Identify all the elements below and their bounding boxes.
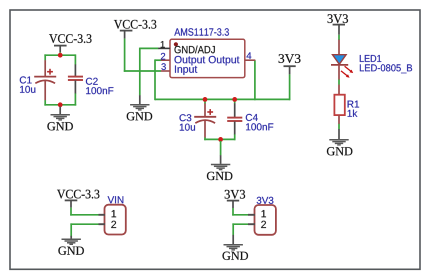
wire bottom rail C1-C2	[44, 104, 76, 106]
wire VCC1 stub to top rail	[59, 52, 61, 55]
wire VCC2 down	[124, 39, 126, 72]
wire bottom rail C3-C4	[204, 138, 235, 140]
power flag 3V3 (top-right)	[328, 14, 348, 35]
label R1 1k	[348, 101, 360, 108]
wire 3V3 mid drop to rail	[289, 74, 291, 100]
wire C4 top stub	[234, 99, 236, 103]
label C1 10u	[20, 76, 32, 83]
wire output rail	[155, 98, 290, 100]
wire VIN pin2 to GND	[70, 223, 98, 225]
op-amp U1 AMS1117-3.3 regulator	[158, 28, 255, 77]
wire C3 bottom stub	[204, 137, 206, 140]
ground GND (bottom-middle)	[223, 235, 249, 260]
power flag 3V3 (middle, right of IC)	[279, 54, 301, 74]
ground GND (middle)	[207, 155, 233, 180]
pin 2	[161, 59, 170, 61]
pin 1	[248, 214, 255, 216]
wire C3 top stub	[204, 99, 206, 103]
label C2 100nF	[86, 78, 98, 85]
pin 2	[99, 223, 106, 225]
wire VCC2 to pin3 (Input)	[124, 70, 161, 72]
ground GND (IC)	[127, 95, 153, 120]
label C4 100nF	[246, 114, 258, 121]
junction node rail C4	[232, 97, 237, 102]
capacitor C4 (100nF)	[227, 103, 242, 134]
pin 1	[158, 47, 170, 49]
wire C4 bottom stub	[234, 134, 236, 140]
junction node bottom (60,105)	[58, 102, 63, 107]
power flag VCC-3.3 (top-left)	[49, 34, 91, 52]
connector 3V3 header	[248, 197, 276, 235]
capacitor C1 (polarized, 10u)	[34, 60, 56, 100]
wire VCC to VIN pin1	[70, 208, 72, 216]
resistor R1 1k	[334, 85, 344, 124]
wire C1 top drop	[44, 54, 46, 60]
wire pin4 drop	[254, 60, 256, 100]
ground GND (bottom-left)	[58, 236, 84, 255]
wire GND drop (middle)	[220, 141, 222, 155]
pin 4	[245, 59, 255, 61]
wire C1 bottom drop	[44, 100, 46, 105]
pin 1	[99, 214, 106, 216]
wire top rail C1-C2	[44, 54, 75, 56]
wire pin1 to GND horizontal	[140, 47, 159, 49]
junction node bottom rail	[218, 137, 223, 142]
pin 2	[248, 223, 255, 225]
connector VIN	[99, 196, 126, 234]
wire pin2 (Output) short + drop to rail	[155, 59, 162, 61]
label LED1 LED-0805_B	[360, 55, 381, 62]
wire conn pin2 to GND	[232, 223, 248, 225]
power flag VCC-3.3 (bottom-left)	[57, 190, 99, 208]
capacitor C2 (100nF)	[68, 64, 83, 93]
LED arrows	[345, 66, 352, 72]
junction node rail C3	[203, 97, 208, 102]
wire 3V3 to conn pin1	[232, 208, 234, 216]
label C3 10u	[180, 114, 192, 121]
wire 3V3 to LED	[338, 35, 340, 40]
ground GND (right)	[327, 129, 353, 155]
wire pin1 GND drop	[139, 48, 141, 96]
power flag 3V3 (bottom-middle)	[225, 190, 245, 208]
wire C2 bottom drop	[74, 93, 76, 105]
LED LED1	[331, 40, 353, 80]
ground GND (left section)	[47, 107, 73, 131]
wire C2 top drop	[74, 54, 76, 64]
power flag VCC-3.3 (above IC)	[114, 20, 156, 39]
pin 3	[161, 70, 170, 72]
capacitor C3 (polarized, 10u)	[194, 103, 216, 137]
wire LED to R1	[338, 80, 340, 85]
wire R1 to GND	[338, 124, 340, 129]
junction node top (60,55)	[58, 53, 63, 58]
